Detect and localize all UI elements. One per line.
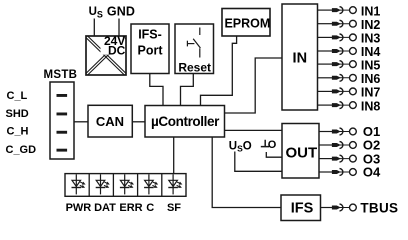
svg-text:CAN: CAN — [96, 114, 124, 129]
svg-text:C_L: C_L — [7, 90, 28, 102]
uController box U1 — [145, 106, 225, 138]
wire uController to SF LED — [173, 137, 175, 174]
svg-text:MSTB: MSTB — [44, 69, 78, 81]
LED SF — [168, 174, 182, 194]
svg-text:IFS: IFS — [291, 201, 314, 217]
svg-text:SHD: SHD — [6, 108, 29, 120]
wire GND — [118, 19, 120, 37]
wire uController to OUT — [225, 129, 283, 131]
terminal IN8 — [332, 102, 356, 109]
terminal IN4 — [332, 48, 356, 55]
MSTB connector — [44, 69, 78, 159]
LED ERR — [120, 174, 134, 194]
svg-text:IFS-: IFS- — [138, 28, 162, 42]
svg-text:O: O — [268, 139, 277, 151]
terminal O4 — [332, 169, 356, 176]
Reset box with pushbutton switch — [175, 24, 214, 75]
terminal TBUS — [332, 204, 356, 211]
svg-text:IN6: IN6 — [361, 72, 381, 86]
terminal IN7 — [332, 88, 356, 95]
pin 1 — [57, 94, 68, 97]
IFS box — [281, 195, 321, 221]
svg-text:DAT: DAT — [94, 202, 116, 214]
terminal IN6 — [332, 74, 356, 81]
LED DAT — [96, 174, 110, 194]
terminal O3 — [332, 155, 356, 162]
wire uController to IN — [225, 58, 283, 113]
OUT box — [282, 124, 319, 179]
svg-text:OUT: OUT — [285, 144, 317, 161]
wire EPROM to uController — [201, 36, 237, 106]
svg-text:IN3: IN3 — [361, 32, 381, 46]
IN box — [282, 4, 318, 110]
terminal IN5 — [332, 61, 356, 68]
wire Reset to uController — [181, 74, 194, 106]
LED block — [65, 174, 186, 197]
svg-text:Port: Port — [138, 44, 164, 58]
svg-text:IN4: IN4 — [361, 45, 381, 59]
svg-text:IN: IN — [293, 51, 308, 67]
wire uController to IFS — [212, 137, 281, 208]
IFS-Port box U2 — [131, 24, 169, 74]
CAN box — [88, 105, 132, 137]
svg-text:EPROM: EPROM — [224, 16, 270, 30]
power supply 24V DC converter — [86, 34, 126, 75]
svg-text:O4: O4 — [363, 165, 381, 180]
wire MSTB to CAN — [74, 121, 88, 123]
svg-text:IN1: IN1 — [361, 4, 381, 18]
terminal IN1 — [332, 7, 356, 14]
wire IFS-Port to uController — [150, 74, 163, 106]
LED C — [144, 174, 158, 194]
svg-text:ERR: ERR — [119, 202, 142, 214]
LED PWR — [72, 174, 86, 194]
svg-text:IN2: IN2 — [361, 18, 381, 32]
svg-text:SF: SF — [167, 202, 181, 214]
terminal O1 — [332, 128, 356, 135]
svg-text:PWR: PWR — [66, 202, 92, 214]
pin 2 — [57, 113, 68, 116]
pin 4 — [57, 149, 68, 152]
wire CAN to uController — [132, 121, 145, 123]
svg-text:Reset: Reset — [178, 61, 211, 75]
svg-text:GND: GND — [107, 5, 135, 19]
input terminal stubs — [318, 10, 334, 207]
svg-text:IN7: IN7 — [361, 86, 381, 100]
terminal IN3 — [332, 34, 356, 41]
pin 3 — [57, 131, 68, 134]
svg-text:µController: µController — [151, 114, 220, 129]
svg-text:TBUS: TBUS — [360, 200, 398, 215]
wire Us supply — [93, 19, 95, 37]
svg-text:DC: DC — [108, 44, 126, 58]
svg-text:C_H: C_H — [7, 126, 29, 138]
wire UsO to OUT — [235, 152, 282, 172]
terminal IN2 — [332, 20, 356, 27]
EPROM box — [222, 9, 270, 37]
svg-text:IN8: IN8 — [361, 99, 381, 113]
wire GND-O to OUT — [266, 152, 282, 157]
svg-text:C_GD: C_GD — [6, 144, 37, 156]
svg-text:C: C — [146, 202, 154, 214]
label GND-O (perpendicular symbol + O) — [261, 139, 277, 151]
terminal O2 — [332, 142, 356, 149]
svg-text:IN5: IN5 — [361, 58, 381, 72]
